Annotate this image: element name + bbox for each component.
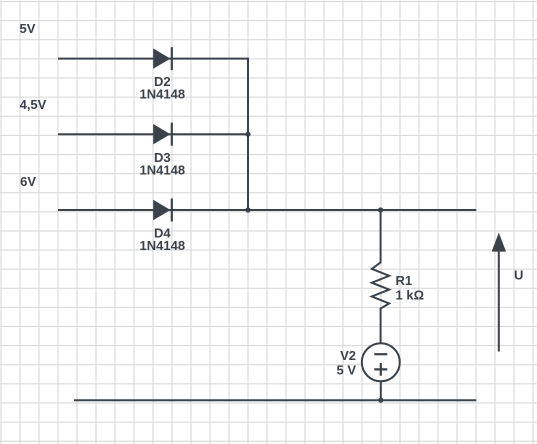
svg-text:5V: 5V xyxy=(20,21,36,36)
svg-text:1N4148: 1N4148 xyxy=(140,162,186,177)
svg-text:5 V: 5 V xyxy=(336,363,356,378)
svg-text:1N4148: 1N4148 xyxy=(140,238,186,253)
svg-text:1N4148: 1N4148 xyxy=(140,87,186,102)
svg-text:R1: R1 xyxy=(396,273,413,288)
svg-text:V2: V2 xyxy=(340,348,356,363)
svg-text:4,5V: 4,5V xyxy=(20,97,47,112)
svg-text:U: U xyxy=(514,268,523,283)
svg-text:6V: 6V xyxy=(20,174,36,189)
svg-text:1 kΩ: 1 kΩ xyxy=(396,288,425,303)
